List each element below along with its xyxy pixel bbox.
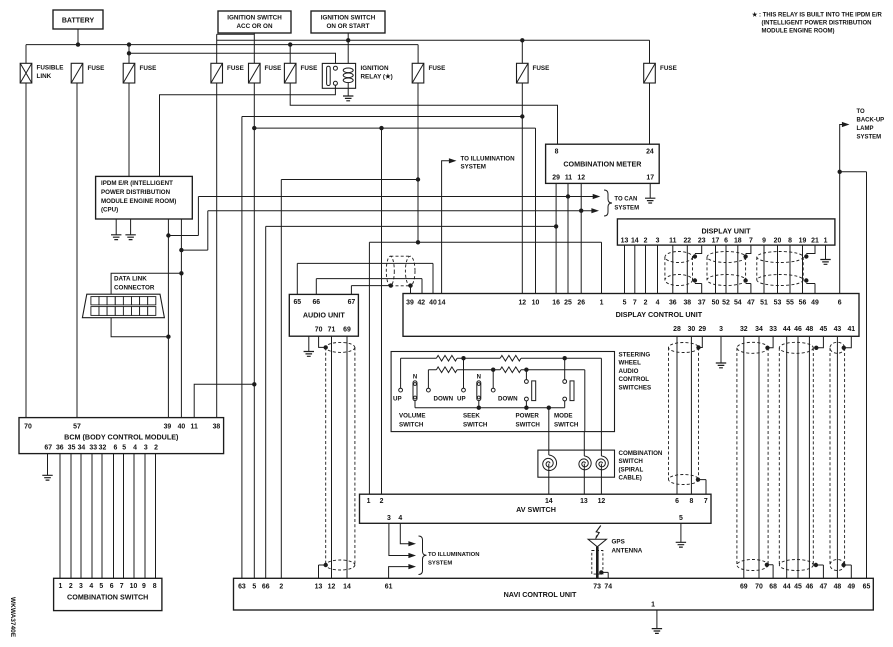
- ground IPDM 2: [125, 235, 135, 240]
- node shieldB top: [765, 346, 769, 350]
- box AUDIO UNIT: [289, 294, 358, 336]
- wire IPDM ground2: [130, 219, 132, 235]
- wire meter29 to DCU16: [555, 183, 557, 293]
- svg-text:12: 12: [577, 175, 585, 182]
- node backup tap: [838, 170, 842, 174]
- svg-text:29: 29: [698, 326, 706, 333]
- svg-text:MODE: MODE: [554, 413, 573, 420]
- svg-text:SWITCH: SWITCH: [619, 458, 644, 465]
- node fuse418 taps: [416, 177, 420, 181]
- svg-text:SWITCH: SWITCH: [399, 421, 424, 428]
- svg-text:8: 8: [689, 498, 693, 505]
- svg-text:(INTELLIGENT POWER DISTRIBUTIO: (INTELLIGENT POWER DISTRIBUTION: [762, 21, 872, 27]
- svg-text:17: 17: [646, 175, 654, 182]
- node DU shield3: [804, 254, 808, 258]
- svg-text:43: 43: [834, 326, 842, 333]
- fusible link FL: [20, 63, 32, 83]
- svg-text:SEEK: SEEK: [463, 413, 480, 420]
- wire AV2 drop: [381, 128, 383, 494]
- fuse F6: [284, 63, 296, 83]
- wire shieldC to NAVI47: [816, 565, 824, 578]
- svg-text:1: 1: [651, 602, 655, 609]
- svg-text:6: 6: [675, 498, 679, 505]
- shield DU cylinder3: [757, 252, 803, 263]
- ground meter: [645, 198, 655, 203]
- shield audio cylinder: [326, 342, 355, 352]
- svg-text:IGNITION SWITCH: IGNITION SWITCH: [321, 15, 376, 22]
- node DU shield2: [743, 254, 747, 258]
- node shieldB bottom: [765, 563, 769, 567]
- svg-text:6: 6: [724, 238, 728, 245]
- svg-text:71: 71: [328, 327, 336, 334]
- relay K1 coil: [343, 68, 353, 73]
- wire fusible to BCM70: [25, 83, 27, 418]
- svg-text:46: 46: [806, 584, 814, 591]
- wire ACC switch drop: [217, 33, 255, 63]
- svg-text:39: 39: [164, 424, 172, 431]
- svg-text:56: 56: [799, 300, 807, 307]
- svg-text:45: 45: [820, 326, 828, 333]
- svg-text:CABLE): CABLE): [619, 475, 642, 482]
- svg-text:65: 65: [293, 299, 301, 306]
- node CAN2 junction: [579, 209, 583, 213]
- svg-text:BACK-UP: BACK-UP: [857, 118, 885, 124]
- svg-text:IGNITION: IGNITION: [361, 65, 389, 72]
- svg-text:18: 18: [734, 238, 742, 245]
- wire DU group1: [673, 245, 688, 293]
- node CAN1 junction: [566, 194, 570, 198]
- svg-text:COMBINATION METER: COMBINATION METER: [563, 160, 642, 169]
- svg-text:13: 13: [621, 238, 629, 245]
- box COMBINATION SWITCH: [54, 578, 162, 610]
- svg-text:SWITCH: SWITCH: [554, 421, 579, 428]
- wire AV3 illumination: [389, 523, 409, 555]
- svg-text:4: 4: [133, 444, 137, 451]
- svg-text:11: 11: [669, 238, 676, 245]
- wire DCU33 drain: [768, 336, 774, 348]
- node rail3 taps: [477, 406, 481, 410]
- svg-text:67: 67: [44, 444, 52, 451]
- ground IPDM 1: [111, 235, 121, 240]
- wire DCU30 to AV8: [690, 336, 692, 494]
- svg-text:FUSE: FUSE: [88, 65, 105, 72]
- switch MODE bar: [570, 381, 574, 401]
- box DISPLAY UNIT: [617, 219, 835, 245]
- fuse F2: [71, 63, 83, 83]
- wire DCU6 backup: [840, 125, 843, 294]
- wire BCM67 ground: [47, 454, 49, 476]
- svg-text:2: 2: [69, 583, 73, 590]
- svg-text:41: 41: [847, 326, 855, 333]
- connector DLC J1: [82, 294, 164, 318]
- ground relay: [343, 96, 353, 101]
- svg-text:26: 26: [577, 300, 585, 307]
- svg-text:14: 14: [438, 300, 446, 307]
- wire relay contact rail: [129, 53, 336, 66]
- antenna GPS triangle: [588, 539, 606, 547]
- box DISPLAY CONTROL UNIT: [403, 294, 859, 337]
- wire fuse to IPDM: [128, 83, 130, 176]
- svg-text:SYSTEM: SYSTEM: [857, 135, 882, 141]
- svg-text:46: 46: [794, 326, 802, 333]
- wire ON switch drop: [347, 33, 349, 67]
- wire NAVI61 illumination: [389, 567, 409, 579]
- resistor R1: [436, 355, 457, 361]
- switch VOLUME UP contact: [400, 358, 402, 388]
- arrow illum3: [408, 564, 416, 569]
- svg-text:67: 67: [348, 299, 356, 306]
- spiral 2: [579, 456, 591, 470]
- wire DCU29 drain: [699, 336, 703, 347]
- wire meter17 ground: [649, 183, 651, 198]
- node battery rail junctions: [76, 42, 80, 46]
- svg-text:33: 33: [89, 444, 97, 451]
- svg-text:5: 5: [623, 300, 627, 307]
- svg-text:VOLUME: VOLUME: [399, 413, 425, 420]
- svg-text:19: 19: [799, 238, 807, 245]
- wire audio70 drain top: [319, 336, 326, 347]
- box BATTERY: [53, 10, 103, 29]
- wire IPDM pinA to BCM39: [167, 219, 169, 418]
- svg-text:37: 37: [698, 300, 706, 307]
- svg-text:12: 12: [518, 300, 526, 307]
- wire fuse to BCM57: [76, 83, 78, 418]
- svg-text:COMBINATION SWITCH: COMBINATION SWITCH: [67, 593, 148, 602]
- ground DCU: [716, 363, 726, 368]
- svg-text:13: 13: [315, 584, 323, 591]
- node DU shield1: [693, 254, 697, 258]
- node DCU39 drain: [408, 283, 412, 287]
- svg-text:11: 11: [565, 175, 572, 182]
- wire switch rail bottom: [415, 407, 565, 409]
- wire fuse418 drop: [417, 83, 419, 242]
- svg-text:FUSE: FUSE: [227, 65, 244, 72]
- svg-text:BATTERY: BATTERY: [62, 18, 95, 25]
- svg-text:34: 34: [78, 444, 86, 451]
- svg-text:SWITCHES: SWITCHES: [619, 384, 652, 391]
- wire AV1-DCU1 branch: [369, 242, 601, 494]
- svg-text:IGNITION SWITCH: IGNITION SWITCH: [227, 15, 282, 22]
- wire shieldB to NAVI68: [767, 565, 773, 579]
- svg-text:FUSE: FUSE: [660, 65, 677, 72]
- svg-text:FUSE: FUSE: [140, 65, 157, 72]
- svg-text:40: 40: [178, 424, 186, 431]
- wire DU7 drain: [746, 245, 751, 293]
- svg-text:44: 44: [783, 584, 791, 591]
- svg-text:SWITCH: SWITCH: [463, 421, 488, 428]
- svg-text:49: 49: [811, 300, 819, 307]
- resistor R4: [500, 367, 521, 373]
- svg-text:DOWN: DOWN: [434, 396, 454, 403]
- svg-text:FUSIBLE: FUSIBLE: [37, 65, 64, 72]
- fuse F8: [412, 63, 424, 83]
- svg-text:57: 57: [73, 424, 81, 431]
- svg-text:35: 35: [68, 444, 76, 451]
- wire DLC upper: [111, 273, 181, 296]
- wire DCU34 to NAVI70: [758, 336, 760, 578]
- svg-text:2: 2: [154, 444, 158, 451]
- svg-text:5: 5: [679, 515, 683, 522]
- svg-text:28: 28: [673, 326, 681, 333]
- node audio shield top: [324, 345, 328, 349]
- arrow CAN1: [593, 194, 601, 199]
- wire switches to AV12: [600, 358, 602, 494]
- wire DCU48 to NAVI46: [808, 336, 810, 578]
- svg-text:5: 5: [252, 584, 256, 591]
- box IGNITION SWITCH ACC: [218, 11, 291, 33]
- svg-text:BCM (BODY CONTROL MODULE): BCM (BODY CONTROL MODULE): [64, 433, 179, 442]
- wire battery stub: [77, 29, 79, 45]
- node audio67 drain: [389, 283, 393, 287]
- node fuse522 tap: [520, 114, 524, 118]
- node rail3 junction: [127, 51, 131, 55]
- spiral 3: [596, 456, 608, 470]
- svg-text:8: 8: [788, 238, 792, 245]
- wire fuse to meter24: [649, 83, 651, 144]
- svg-text:STEERING: STEERING: [619, 352, 651, 359]
- svg-text:2: 2: [279, 584, 283, 591]
- svg-text:25: 25: [564, 300, 572, 307]
- svg-text:11: 11: [191, 424, 198, 431]
- svg-text:38: 38: [683, 300, 691, 307]
- wire DCU45 drain: [816, 336, 823, 348]
- connector DLC pins: [91, 297, 99, 305]
- wire BCM11 to ACC line: [194, 384, 254, 417]
- brace TO CAN: [604, 190, 612, 216]
- svg-text:ON OR START: ON OR START: [327, 23, 370, 30]
- svg-text:AUDIO UNIT: AUDIO UNIT: [303, 311, 346, 320]
- svg-text:70: 70: [24, 424, 32, 431]
- svg-text:SYSTEM: SYSTEM: [461, 163, 486, 170]
- svg-text:POWER: POWER: [516, 413, 540, 420]
- svg-text:30: 30: [688, 326, 696, 333]
- svg-text:DISPLAY CONTROL UNIT: DISPLAY CONTROL UNIT: [616, 310, 703, 319]
- arrow illum2: [408, 553, 416, 558]
- node meter29 tap: [554, 224, 558, 228]
- svg-text:LAMP: LAMP: [857, 126, 874, 132]
- box BCM: [19, 418, 224, 454]
- shield DU cylinder1: [665, 252, 693, 263]
- wire shield to DCU39: [410, 286, 412, 294]
- svg-text:DISPLAY UNIT: DISPLAY UNIT: [701, 227, 751, 236]
- svg-text:DOWN: DOWN: [498, 396, 518, 403]
- wire meter12 to DCU26: [580, 183, 582, 293]
- fuse F4: [211, 63, 223, 83]
- box SPIRAL CABLE: [538, 450, 615, 477]
- node pinB taps: [179, 248, 183, 252]
- svg-text:N: N: [413, 375, 417, 381]
- node shieldC bottom: [814, 563, 818, 567]
- svg-text:1: 1: [600, 300, 604, 307]
- shield GPS dashed: [592, 551, 603, 575]
- svg-text:36: 36: [669, 300, 677, 307]
- wire DCU32 to NAVI69: [743, 336, 745, 578]
- wire ON rail: [217, 40, 650, 63]
- resistor R3: [436, 367, 457, 373]
- svg-text:16: 16: [552, 300, 560, 307]
- node audio shield bottom: [324, 563, 328, 567]
- svg-text:4: 4: [398, 515, 402, 522]
- svg-text:51: 51: [760, 300, 768, 307]
- svg-text:42: 42: [417, 300, 425, 307]
- wire relay coil ground: [347, 83, 349, 96]
- svg-text:48: 48: [834, 584, 842, 591]
- svg-text:POWER DISTRIBUTION: POWER DISTRIBUTION: [101, 189, 171, 196]
- svg-text:14: 14: [631, 238, 639, 245]
- svg-text:66: 66: [262, 584, 270, 591]
- switch POWER contacts: [525, 370, 527, 380]
- wire DCU43 to NAVI48: [836, 336, 838, 578]
- box COMBINATION METER: [546, 144, 660, 183]
- svg-text:FUSE: FUSE: [429, 65, 446, 72]
- shield cylinder D: [830, 342, 845, 353]
- wire audio71 to NAVI12: [331, 336, 333, 578]
- wire fuse to BCM38: [216, 83, 218, 418]
- svg-text:70: 70: [755, 584, 763, 591]
- svg-text:(SPIRAL: (SPIRAL: [619, 466, 644, 473]
- arrow illum1: [408, 541, 416, 546]
- wire battery rail: [26, 45, 418, 64]
- svg-text:TO CAN: TO CAN: [614, 197, 637, 203]
- switch VOLUME N bar: [413, 381, 417, 401]
- svg-text:ANTENNA: ANTENNA: [612, 548, 643, 555]
- wire AV5 ground: [680, 523, 682, 542]
- ground BCM: [42, 475, 52, 480]
- svg-text:1: 1: [367, 498, 371, 505]
- svg-text:8: 8: [153, 583, 157, 590]
- fuse F3: [123, 63, 135, 83]
- svg-text:45: 45: [794, 584, 802, 591]
- svg-text:10: 10: [130, 583, 138, 590]
- svg-text:55: 55: [786, 300, 794, 307]
- wire DU13-3 to DCU: [625, 245, 658, 293]
- svg-text:2: 2: [644, 238, 648, 245]
- wire IPDM pinB to BCM40: [180, 219, 182, 418]
- wire DCU44 to NAVI44: [786, 336, 788, 578]
- node GPS shield: [599, 570, 603, 574]
- ground display unit: [820, 260, 830, 265]
- switch POWER bar: [532, 381, 536, 401]
- svg-text:SWITCH: SWITCH: [516, 421, 541, 428]
- wire relay output to IPDM: [160, 85, 336, 176]
- switch SEEK N bar: [477, 381, 481, 401]
- wire NAVI63 branch: [242, 117, 522, 579]
- box STEERING SWITCHES: [391, 352, 614, 432]
- ground AV switch: [676, 542, 686, 547]
- svg-text:FUSE: FUSE: [533, 65, 550, 72]
- wire ACC to DCU10: [254, 128, 535, 293]
- wire ACC fuse to NAVI5: [253, 83, 255, 578]
- switch SEEK UP contact: [463, 358, 465, 388]
- svg-text:36: 36: [56, 444, 64, 451]
- svg-text:74: 74: [604, 584, 612, 591]
- svg-text:12: 12: [328, 584, 336, 591]
- svg-text:49: 49: [847, 584, 855, 591]
- wire audio ground: [308, 336, 310, 351]
- wire DCU46 to NAVI45: [797, 336, 799, 578]
- svg-text:6: 6: [113, 444, 117, 451]
- wire fuse to meter8: [290, 83, 557, 144]
- arrow illumination upper: [449, 158, 457, 163]
- svg-text:48: 48: [806, 326, 814, 333]
- svg-text:TO ILLUMINATION: TO ILLUMINATION: [461, 155, 516, 162]
- svg-text:LINK: LINK: [37, 73, 52, 80]
- fuse F10: [644, 63, 656, 83]
- svg-text:20: 20: [774, 238, 782, 245]
- svg-text:47: 47: [820, 584, 828, 591]
- fuse F9: [517, 63, 529, 83]
- relay K1 contact pins: [333, 66, 337, 70]
- svg-text:32: 32: [740, 326, 748, 333]
- svg-text:29: 29: [552, 175, 560, 182]
- svg-text:66: 66: [312, 299, 320, 306]
- wire meter29 to NAVI66: [266, 226, 556, 578]
- svg-text:UP: UP: [457, 396, 466, 403]
- wire meter11 to DCU25: [567, 183, 569, 293]
- svg-text:GPS: GPS: [612, 539, 625, 546]
- svg-text:7: 7: [120, 583, 124, 590]
- svg-text:7: 7: [749, 238, 753, 245]
- shield cylinder B: [737, 342, 768, 353]
- svg-text:4: 4: [656, 300, 660, 307]
- wire AV4 illumination: [400, 523, 409, 543]
- svg-text:9: 9: [762, 238, 766, 245]
- wire NAVI1 ground: [656, 610, 658, 629]
- svg-text:AUDIO: AUDIO: [619, 368, 639, 375]
- svg-text:10: 10: [532, 300, 540, 307]
- node shieldA top: [696, 345, 700, 349]
- box IGNITION SWITCH ON: [311, 11, 385, 33]
- svg-text:ACC OR ON: ACC OR ON: [236, 23, 272, 30]
- svg-text:7: 7: [633, 300, 637, 307]
- svg-text:1: 1: [58, 583, 62, 590]
- svg-text:5: 5: [99, 583, 103, 590]
- svg-text:23: 23: [698, 238, 706, 245]
- wire DCU41 drain: [844, 336, 852, 348]
- svg-text:70: 70: [315, 327, 323, 334]
- svg-text:DATA LINK: DATA LINK: [114, 276, 147, 283]
- svg-text:61: 61: [385, 584, 393, 591]
- switch VOLUME DOWN contact: [427, 370, 429, 389]
- svg-text:68: 68: [769, 584, 777, 591]
- wire fuse522 to DCU12: [521, 83, 523, 294]
- node shieldD bottom: [841, 563, 845, 567]
- svg-text:MODULE ENGINE ROOM): MODULE ENGINE ROOM): [101, 198, 176, 205]
- svg-text:13: 13: [580, 498, 588, 505]
- wire audio67 shield: [351, 286, 390, 295]
- svg-text:2: 2: [380, 498, 384, 505]
- svg-text:TO ILLUMINATION: TO ILLUMINATION: [428, 552, 479, 558]
- wire switch rail1: [401, 357, 602, 359]
- svg-text:RELAY (★): RELAY (★): [361, 74, 393, 81]
- svg-text:47: 47: [747, 300, 755, 307]
- wire IPDM ground1: [115, 219, 117, 235]
- wire tail-NAVI2 branch: [281, 180, 418, 579]
- svg-text:WKWA3740E: WKWA3740E: [9, 597, 16, 638]
- svg-text:73: 73: [593, 584, 601, 591]
- wire switch rail2: [428, 369, 584, 371]
- svg-text:34: 34: [755, 326, 763, 333]
- svg-text:22: 22: [683, 238, 691, 245]
- switch MODE contacts: [564, 358, 566, 379]
- switch SEEK DOWN contact: [492, 370, 494, 389]
- svg-text:17: 17: [712, 238, 720, 245]
- svg-text:2: 2: [644, 300, 648, 307]
- svg-text:33: 33: [769, 326, 777, 333]
- svg-text:(CPU): (CPU): [101, 207, 118, 214]
- arrow backup: [842, 122, 850, 127]
- svg-text:52: 52: [722, 300, 730, 307]
